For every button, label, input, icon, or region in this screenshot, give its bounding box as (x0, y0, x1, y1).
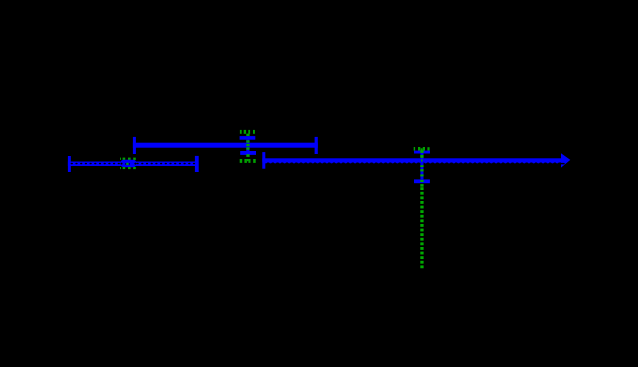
point cluster P2 at x≈128 on segment S2 (120, 158, 136, 170)
dotted green line D1 through V1 (246, 134, 249, 157)
arrowhead of ray S3 (561, 153, 570, 167)
label L4 (green value above V2 at x≈422) (414, 147, 430, 151)
ray S3 (long right arrowed line) (262, 152, 570, 169)
label L3 top fragments (120, 158, 136, 160)
green center dot of P2 (126, 163, 128, 165)
segment S2 (lower-left interval, dash-dotted) (68, 156, 199, 172)
label L3 bottom fragments (120, 167, 136, 169)
blue marker blob (121, 160, 137, 167)
label L1 (green value above point P1 at x≈247) (240, 130, 255, 134)
segment S1 (top interval) (133, 137, 318, 154)
vertical segment V2 at x≈422 with serif caps (414, 151, 430, 184)
dotted green vertical line D2 at x≈422 (420, 150, 423, 268)
vertical segment V1 at x≈247 with serif caps (240, 136, 256, 155)
label L2 (green value below V1) (240, 159, 256, 163)
